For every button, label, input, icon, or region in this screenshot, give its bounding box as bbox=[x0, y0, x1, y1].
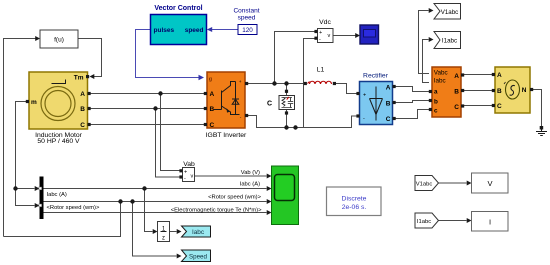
block f(u) Fcn bbox=[40, 30, 78, 48]
block Vector Control subsystem bbox=[151, 5, 207, 45]
svg-text:N: N bbox=[522, 87, 527, 94]
svg-text:2e-06 s.: 2e-06 s. bbox=[342, 204, 367, 211]
wire source N to ground bbox=[532, 90, 542, 127]
svg-text:A: A bbox=[454, 73, 459, 80]
arrow into I display bbox=[467, 218, 472, 223]
port L1 left bbox=[304, 82, 307, 85]
svg-text:Vabc: Vabc bbox=[434, 70, 448, 77]
arrow into speed input (blue) bbox=[207, 27, 212, 32]
port src C bbox=[492, 104, 495, 107]
block three-phase source bbox=[492, 67, 533, 113]
port Vdc plus bbox=[314, 30, 317, 33]
capacitor C snubber block bbox=[267, 90, 295, 115]
arrow into scope input 4 bbox=[267, 210, 272, 215]
wire phase C motor to inverter bbox=[91, 124, 205, 126]
wire V1abc from to V display bbox=[439, 182, 467, 184]
arrow into bus selector input 1 bbox=[35, 186, 40, 191]
node DC plus Vdc tap bbox=[272, 81, 276, 85]
from tag I1abc bbox=[415, 213, 439, 228]
port rect minus bbox=[356, 114, 359, 117]
arrow into scope input 3 bbox=[267, 199, 272, 204]
port C top bbox=[285, 90, 288, 93]
svg-text:IGBT Inverter: IGBT Inverter bbox=[206, 132, 247, 139]
port rect B bbox=[393, 101, 396, 104]
wire bus selector Iabc(A) to scope bbox=[44, 188, 267, 190]
arrow into inverter gate (blue) bbox=[199, 75, 205, 80]
port src B bbox=[492, 89, 495, 92]
wire measurement B to source B bbox=[464, 90, 492, 92]
wire rotor speed tap to Speed goto bbox=[133, 202, 177, 257]
block Induction Motor bbox=[26, 72, 91, 145]
wire phase A tap to Vab + bbox=[161, 94, 180, 171]
node Iabc tap bbox=[142, 186, 146, 190]
port B in bbox=[204, 107, 207, 110]
svg-text:L1: L1 bbox=[317, 67, 325, 74]
wire rectifier C to measurement c bbox=[396, 110, 430, 119]
wire C block top stub bbox=[286, 84, 288, 96]
svg-text:Iabc: Iabc bbox=[192, 229, 205, 236]
svg-text:pulses: pulses bbox=[154, 27, 175, 34]
port Vab plus bbox=[179, 169, 182, 172]
svg-text:g: g bbox=[209, 77, 212, 83]
wire bus selector torque to scope bbox=[44, 212, 267, 214]
node A tap bbox=[158, 91, 162, 95]
block green scope bbox=[272, 166, 299, 225]
svg-text:-: - bbox=[319, 37, 321, 43]
node B tap bbox=[153, 106, 157, 110]
port A out bbox=[461, 73, 464, 76]
node DC minus C tap bbox=[284, 125, 288, 129]
block IGBT Inverter bbox=[204, 72, 248, 139]
block three-phase V-I measurement bbox=[429, 67, 464, 117]
wire DC plus rail inverter to L1 bbox=[248, 83, 305, 85]
port c bbox=[429, 108, 432, 111]
diode symbol bbox=[370, 87, 383, 121]
svg-text:120: 120 bbox=[242, 27, 253, 34]
wire pulses to inverter gate (blue) bbox=[136, 30, 200, 78]
wire Iabc tap to unit delay bbox=[145, 189, 153, 232]
svg-text:+: + bbox=[184, 170, 187, 176]
arrow into blue scope bbox=[355, 33, 360, 38]
svg-text:B: B bbox=[386, 101, 391, 108]
arrow into unit delay bbox=[153, 229, 158, 234]
svg-text:50 HP / 460 V: 50 HP / 460 V bbox=[37, 138, 80, 145]
svg-text:v: v bbox=[191, 174, 194, 180]
goto tag Iabc (cyan) bbox=[182, 226, 211, 237]
arrowheads dark bbox=[35, 8, 472, 259]
wire rectifier B to measurement b bbox=[396, 101, 430, 103]
svg-text:b: b bbox=[434, 99, 438, 106]
wire f(u) output to Tm bbox=[78, 39, 102, 77]
block Rectifier bbox=[356, 73, 395, 125]
wire constant 120 to speed input (blue) bbox=[212, 29, 238, 31]
goto tag I1abc bbox=[434, 32, 461, 49]
wire loop bottom from rotor speed dot bbox=[4, 202, 121, 237]
svg-text:B: B bbox=[80, 106, 85, 113]
svg-text:C: C bbox=[80, 122, 85, 129]
svg-text:a: a bbox=[434, 89, 438, 96]
svg-text:Iabc (A): Iabc (A) bbox=[240, 181, 260, 187]
node rotor speed tap fu bbox=[118, 199, 122, 203]
wire Vabc to V1abc goto bbox=[419, 11, 430, 74]
wire phase A motor to inverter bbox=[91, 93, 205, 95]
svg-text:B: B bbox=[497, 88, 502, 95]
node m branch bbox=[13, 186, 17, 190]
svg-text:<Rotor speed (wm)>: <Rotor speed (wm)> bbox=[208, 194, 261, 200]
svg-text:<Electromagnetic torque Te (N*: <Electromagnetic torque Te (N*m)> bbox=[171, 207, 262, 213]
port rect C bbox=[393, 117, 396, 120]
port m bbox=[26, 100, 29, 103]
port L1 right bbox=[333, 82, 336, 85]
port Tm bbox=[86, 75, 89, 78]
arrow into Iabc goto bbox=[177, 229, 182, 234]
block blue display scope bbox=[360, 25, 379, 44]
wire DC minus rail bbox=[248, 116, 357, 128]
arrow into scope input 1 bbox=[267, 174, 272, 179]
port b bbox=[429, 99, 432, 102]
svg-text:C: C bbox=[497, 103, 502, 110]
port C out bbox=[461, 104, 464, 107]
svg-text:C: C bbox=[267, 101, 272, 108]
port src N bbox=[530, 88, 533, 91]
svg-text:m: m bbox=[31, 99, 37, 106]
svg-text:-: - bbox=[184, 176, 186, 182]
wire I1abc from to I display bbox=[439, 220, 467, 222]
svg-text:+: + bbox=[363, 93, 366, 99]
goto tag Speed (cyan) bbox=[182, 250, 211, 262]
wire L1 to rectifier plus bbox=[336, 84, 357, 94]
wire Vdc plus tap bbox=[275, 32, 315, 84]
svg-text:Vector Control: Vector Control bbox=[154, 5, 202, 12]
wire measurement C to source C bbox=[464, 105, 492, 107]
port Vab minus bbox=[179, 175, 182, 178]
port minus bbox=[245, 114, 248, 117]
port C bottom bbox=[285, 111, 288, 114]
svg-text:C: C bbox=[454, 104, 459, 111]
port src A bbox=[492, 73, 495, 76]
svg-text:Vab (V): Vab (V) bbox=[241, 170, 260, 176]
arrow into Speed goto bbox=[177, 254, 182, 259]
IGBT symbol bbox=[214, 82, 240, 115]
port B bbox=[88, 107, 91, 110]
node rotor speed tap speed goto bbox=[130, 199, 134, 203]
svg-text:Iabc (A): Iabc (A) bbox=[47, 192, 67, 198]
port B out bbox=[461, 89, 464, 92]
svg-text:Tm: Tm bbox=[74, 75, 84, 82]
svg-text:C: C bbox=[210, 122, 215, 129]
svg-text:V1abc: V1abc bbox=[416, 182, 433, 188]
svg-text:Speed: Speed bbox=[189, 254, 207, 261]
arrow into f(u) bbox=[35, 36, 40, 41]
svg-text:A: A bbox=[210, 91, 215, 98]
goto tag V1abc bbox=[434, 4, 461, 20]
port rect plus bbox=[356, 92, 359, 95]
svg-text:C: C bbox=[386, 116, 391, 123]
wire phase B tap to Vab - bbox=[156, 109, 180, 178]
wire rectifier A to measurement a bbox=[396, 87, 430, 92]
svg-text:Iabc: Iabc bbox=[434, 78, 446, 85]
svg-text:I1abc: I1abc bbox=[417, 219, 431, 225]
wire phase B motor to inverter bbox=[91, 108, 205, 110]
svg-text:-: - bbox=[363, 116, 365, 122]
junction dots bbox=[13, 81, 297, 203]
block powergui Discrete bbox=[327, 187, 382, 216]
svg-text:z: z bbox=[162, 236, 165, 242]
port a bbox=[429, 90, 432, 93]
arrow into V1abc goto bbox=[429, 8, 434, 13]
svg-text:Discrete: Discrete bbox=[342, 196, 367, 203]
wire C block bottom stub bbox=[286, 110, 288, 128]
arrow into Tm bbox=[90, 74, 95, 79]
svg-text:B: B bbox=[454, 89, 459, 96]
wire Iabc to I1abc goto bbox=[423, 40, 430, 83]
inductor L1 bbox=[304, 67, 336, 86]
from tag V1abc bbox=[415, 176, 439, 191]
arrow into V display bbox=[467, 181, 472, 186]
svg-text:+: + bbox=[239, 80, 242, 85]
port rect A bbox=[393, 85, 396, 88]
wire measurement A to source A bbox=[464, 74, 492, 76]
wire Vab output to scope bbox=[195, 175, 267, 177]
bus selector bar bbox=[40, 177, 44, 220]
block V display bbox=[472, 173, 509, 193]
svg-text:I1abc: I1abc bbox=[442, 38, 457, 45]
node DC minus Vdc tap bbox=[293, 125, 297, 129]
block Vdc voltage measurement bbox=[314, 19, 333, 43]
svg-text:Vab: Vab bbox=[183, 161, 195, 168]
port C bbox=[88, 123, 91, 126]
wire f(u) input from rotor speed loop bbox=[4, 39, 36, 237]
svg-text:+: + bbox=[319, 30, 322, 36]
wire unit delay to Iabc goto bbox=[170, 231, 177, 233]
svg-text:f(u): f(u) bbox=[54, 37, 64, 44]
svg-text:A: A bbox=[497, 72, 502, 79]
port A in bbox=[204, 92, 207, 95]
wire Vdc output to blue scope bbox=[334, 35, 356, 37]
svg-text:<Rotor speed (wm)>: <Rotor speed (wm)> bbox=[47, 205, 100, 211]
port C in bbox=[204, 123, 207, 126]
svg-text:A: A bbox=[386, 85, 391, 92]
port Vdc minus bbox=[314, 37, 317, 40]
arrow into I1abc goto bbox=[429, 37, 434, 42]
wire motor m output to bus selector bbox=[16, 102, 35, 206]
block Constant speed 120 bbox=[233, 8, 259, 35]
arrow into bus selector input 2 bbox=[35, 203, 40, 208]
svg-text:I: I bbox=[489, 218, 491, 227]
svg-text:c: c bbox=[434, 108, 438, 115]
node DC plus C tap bbox=[284, 81, 288, 85]
block Vab voltage measurement bbox=[179, 161, 195, 182]
block unit delay 1/z bbox=[158, 222, 170, 242]
svg-text:speed: speed bbox=[238, 15, 256, 22]
port A bbox=[88, 92, 91, 95]
svg-text:A: A bbox=[80, 91, 85, 98]
svg-text:V1abc: V1abc bbox=[441, 9, 459, 16]
block I display bbox=[472, 212, 509, 232]
svg-text:V: V bbox=[487, 179, 492, 188]
port plus bbox=[245, 82, 248, 85]
arrow into scope input 2 bbox=[267, 186, 272, 191]
wire Vdc minus to bottom rail bbox=[304, 39, 315, 128]
svg-text:speed: speed bbox=[185, 27, 204, 34]
wire bus selector rotor speed to scope bbox=[44, 201, 267, 203]
svg-text:B: B bbox=[210, 106, 215, 113]
svg-text:Vdc: Vdc bbox=[319, 19, 331, 26]
svg-text:Rectifier: Rectifier bbox=[363, 73, 389, 80]
svg-text:Constant: Constant bbox=[233, 8, 259, 15]
ground bbox=[536, 126, 547, 136]
svg-text:v: v bbox=[328, 33, 331, 39]
